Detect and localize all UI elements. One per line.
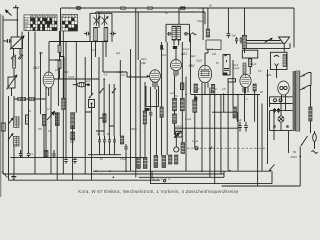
wire x8: [8, 96, 10, 180]
resistor R30: [26, 115, 29, 124]
padder resistor R5: [42, 114, 45, 125]
capacitor C5: [110, 32, 116, 36]
wire x250: [249, 58, 251, 75]
wire R4 rail: [14, 98, 46, 100]
wire x109: [108, 84, 110, 136]
wire x274: [273, 111, 275, 140]
wire x186: [185, 77, 187, 172]
trim pot box: [175, 131, 184, 138]
capacitor C19: [27, 152, 30, 158]
fuse FU1: [313, 131, 317, 148]
wire IFT2 to V3: [175, 49, 177, 60]
capacitor C12: [124, 144, 127, 152]
mains switch S2: [269, 165, 275, 171]
svg-text:0,5µF: 0,5µF: [196, 60, 203, 63]
resistor R16: [193, 100, 197, 113]
capacitor C10: [108, 136, 111, 155]
wire x161: [161, 42, 163, 156]
capacitor C6: [167, 32, 172, 36]
wire x140: [138, 12, 140, 157]
node on bus 2: [199, 7, 201, 9]
svg-text:100: 100: [39, 52, 44, 55]
HT supply bus: [61, 7, 294, 9]
wire screen branch: [60, 57, 65, 99]
coil box T-A: [90, 13, 112, 42]
node HT a: [214, 94, 216, 96]
svg-text:1µF: 1µF: [170, 92, 175, 95]
wire x228: [227, 82, 229, 171]
wire x257: [257, 95, 259, 187]
coil L5: [13, 57, 16, 68]
resistor R8: [71, 113, 75, 129]
wire tap feeder: [309, 73, 312, 86]
potentiometer P1: [7, 74, 18, 89]
wire x35: [34, 32, 36, 175]
resistor R1 on bus: [121, 7, 126, 9]
transformer T3 winding stack: [296, 71, 300, 131]
tube V5 envelope: [240, 74, 251, 93]
wire grid divider drop: [60, 8, 62, 57]
heater winding box: [270, 97, 293, 107]
resistor R17: [173, 114, 177, 123]
wire x179: [178, 8, 180, 24]
potentiometer P2: [174, 133, 180, 152]
switch contact S5: [100, 88, 104, 92]
svg-text:AK2: AK2: [32, 66, 40, 70]
capacitor C15: [244, 122, 247, 132]
node HT b: [223, 94, 225, 96]
svg-text:AZ1: AZ1: [265, 73, 272, 77]
cap cluster bus: [88, 154, 121, 156]
wire V4 grid feed: [205, 50, 208, 66]
detector takeoff line: [103, 42, 146, 77]
svg-text:50µF: 50µF: [141, 58, 147, 61]
terminal x mark b: [287, 126, 289, 128]
mains squiggle: [312, 151, 318, 154]
chassis bus 2: [3, 173, 224, 175]
electrolytic C16: [169, 155, 172, 164]
resistor R20: [181, 143, 185, 154]
svg-text:0,1µF: 0,1µF: [192, 140, 199, 143]
switch contact S6: [113, 88, 117, 92]
mains plug node: [299, 156, 301, 158]
wire link drop: [151, 171, 153, 179]
bottom bus 5: [139, 171, 224, 177]
knob node: [195, 147, 198, 150]
capacitor C13: [149, 110, 152, 118]
wire x281: [280, 100, 282, 131]
svg-text:0,1µF: 0,1µF: [183, 48, 190, 51]
capacitor C3: [226, 34, 236, 39]
wire screen feed: [59, 31, 61, 79]
svg-text:4Ω: 4Ω: [260, 91, 263, 94]
capacitor C21: [52, 150, 55, 158]
speaker cone SP1: [279, 37, 290, 52]
bottom nested line: [150, 171, 272, 183]
terminal box: [242, 50, 257, 58]
pilot lamp LP1: [278, 116, 284, 122]
link pivot circle: [163, 180, 165, 182]
mechanical link lower dashes: [153, 178, 172, 180]
tube V3 envelope: [171, 60, 182, 77]
antenna arrow A: [5, 9, 12, 15]
resistor R21: [137, 157, 141, 168]
wire drop x228: [227, 8, 229, 34]
AVC arrow: [146, 75, 149, 78]
wire x267: [267, 70, 269, 165]
wire x40: [41, 52, 45, 158]
switch contact S4: [90, 93, 94, 98]
capacitor C18: [19, 150, 22, 158]
tick stubs: [85, 112, 114, 131]
capacitor C9: [103, 136, 106, 155]
link arrow: [210, 147, 213, 151]
wire x238: [237, 95, 239, 171]
lamp box: [270, 111, 293, 131]
wire x202: [201, 88, 203, 172]
capacitor C11: [113, 136, 116, 155]
coupling box: [223, 54, 230, 75]
wire speaker leads: [247, 41, 284, 44]
HT node line: [191, 94, 260, 96]
wire osc coil top: [95, 12, 97, 13]
wire x195: [194, 95, 196, 149]
box K1: [89, 100, 95, 108]
svg-text:Kora, W 67 Elektra, Wechselstr: Kora, W 67 Elektra, Wechselstrom, 1 Vork…: [78, 189, 239, 194]
resistor R23: [154, 156, 158, 168]
svg-text:0,1µF: 0,1µF: [233, 67, 240, 70]
speaker cabinet: [245, 8, 295, 53]
trimmer arrow TR1b: [94, 15, 100, 27]
transformer T3 core: [293, 71, 295, 131]
svg-text:2µF: 2µF: [162, 54, 167, 57]
wire C2 legs: [14, 49, 21, 56]
wire x85: [84, 57, 86, 174]
wire x95: [95, 41, 97, 57]
capacitor block C20: [44, 151, 48, 158]
coil L4: [177, 26, 181, 41]
flexible lead squiggle: [192, 33, 197, 35]
svg-text:100: 100: [212, 53, 217, 56]
svg-text:300: 300: [70, 141, 75, 144]
resistor R13: [160, 107, 163, 117]
trimmer arrow TR4: [47, 111, 55, 120]
wire antenna down-lead: [16, 8, 18, 37]
svg-text:0,1µF: 0,1µF: [117, 71, 124, 74]
choke box: [271, 52, 288, 69]
resistor R24: [162, 156, 166, 168]
resistor R26: [206, 29, 209, 37]
resistor R3a: [58, 45, 61, 53]
svg-text:0,1µF: 0,1µF: [185, 118, 192, 121]
tone line: [212, 112, 238, 122]
heater bus 1: [10, 157, 147, 159]
wire antenna link: [3, 19, 17, 21]
wire mains riser: [310, 86, 312, 134]
switch contact S1b: [18, 55, 23, 60]
wire IFT2 coil leads: [174, 39, 179, 45]
wire x22: [21, 32, 23, 158]
wire x46: [45, 94, 47, 158]
svg-text:0,5µF: 0,5µF: [120, 158, 127, 161]
svg-text:0,1µF: 0,1µF: [207, 48, 214, 51]
wire x209: [209, 88, 211, 178]
wire drop x203: [202, 8, 204, 40]
svg-text:50: 50: [293, 150, 297, 154]
wire x63: [62, 31, 64, 174]
wire x58: [57, 69, 59, 106]
chassis bus 3: [9, 179, 160, 181]
svg-text:0,1µF: 0,1µF: [175, 129, 182, 132]
oscillator coil L6: [14, 117, 20, 127]
resistor R14: [173, 98, 177, 111]
tube V1 envelope: [43, 72, 54, 96]
hum coil arrow: [265, 39, 272, 43]
wire x167: [166, 42, 168, 155]
solder blob: [194, 97, 197, 100]
svg-text:50µF: 50µF: [63, 71, 69, 74]
wire x99: [98, 12, 100, 136]
wire V1 anode: [49, 41, 106, 72]
wire x126: [125, 152, 127, 171]
capacitor C7: [184, 32, 190, 36]
trimmer arrow TR5: [8, 119, 13, 125]
wire field coil bottom: [242, 43, 290, 48]
tap arrow TP1: [300, 73, 309, 78]
terminal block on earth lead: [1, 123, 5, 131]
wire x120: [119, 60, 121, 136]
wire left column: [12, 68, 15, 117]
wire x130: [130, 49, 132, 171]
wire x106: [105, 41, 107, 57]
terminal x mark a: [274, 126, 276, 128]
resistor R2 on bus: [148, 7, 153, 9]
wire x215: [214, 95, 216, 184]
resistor R28: [243, 63, 246, 74]
svg-text:0,1µF: 0,1µF: [55, 59, 62, 62]
tube V4 envelope: [198, 65, 211, 89]
volume feed line: [174, 127, 238, 129]
wire x285: [285, 100, 287, 111]
wire x182: [181, 42, 183, 143]
wire x150: [150, 87, 152, 184]
wire x145: [144, 82, 146, 157]
V2 cathode box: [146, 86, 159, 107]
cathode resistor blob: [145, 108, 150, 111]
wire x174: [174, 75, 176, 135]
svg-text:220V: 220V: [291, 155, 298, 159]
mechanical dashed link: [187, 147, 268, 149]
capacitor C1: [3, 39, 11, 43]
wire x91 IFT1 left: [91, 42, 93, 180]
wire x288: [288, 131, 290, 153]
wire x51: [50, 94, 52, 174]
detector D1: [73, 83, 90, 87]
mains bottom line: [222, 147, 301, 187]
trimmer arrow TR2b: [102, 15, 108, 27]
trimmer arrow TR3: [8, 134, 13, 140]
antenna terminal symbol: [13, 5, 19, 7]
variable capacitor C2: [10, 35, 25, 50]
svg-text:50µF: 50µF: [236, 119, 242, 122]
svg-text:TA: TA: [25, 28, 28, 31]
resistor R32: [211, 84, 214, 93]
wire x28: [28, 32, 30, 152]
svg-text:0,1µF: 0,1µF: [250, 63, 257, 66]
wire x114: [113, 84, 115, 136]
resistor R27: [249, 59, 252, 67]
capacitor C28: [240, 37, 243, 44]
wire fuse lead: [314, 142, 316, 150]
wire fork to rectifier: [276, 70, 278, 78]
wire x57: [56, 113, 58, 181]
terminal blob: [173, 46, 177, 49]
wire x72: [72, 126, 74, 181]
capacitor C4: [84, 32, 90, 36]
wire x190: [190, 34, 192, 95]
oscillator coil L7: [14, 136, 20, 146]
dial lamp a: [274, 99, 277, 102]
scan edge artifact: [0, 14, 2, 197]
resistor R7: [62, 98, 65, 109]
wire x220: [220, 95, 222, 175]
resistor R10: [103, 114, 106, 123]
wire x262: [261, 104, 263, 172]
field coil magnet: [242, 35, 246, 48]
coil L3: [172, 26, 176, 41]
resistor R31: [194, 84, 198, 93]
box K2: [206, 40, 221, 50]
band switch table grid 1: [24, 15, 57, 31]
fuse F1 on bus: [77, 7, 80, 10]
wire x244: [244, 87, 246, 121]
choke coil L8: [283, 55, 286, 67]
AVC bus: [96, 11, 205, 13]
wire x66: [65, 42, 67, 158]
node drop: [202, 7, 204, 9]
dial lamp b: [279, 99, 282, 102]
svg-text:0,1µF: 0,1µF: [68, 76, 75, 79]
resistor R12: [143, 111, 146, 124]
node J1: [16, 19, 18, 21]
svg-text:4µF: 4µF: [86, 80, 91, 83]
resistor R18: [233, 107, 236, 118]
IFT2 box: [166, 24, 190, 42]
svg-text:4µF: 4µF: [160, 48, 165, 51]
capacitor C23: [73, 158, 76, 164]
wire x76: [75, 42, 77, 113]
junction dots: [98, 11, 100, 13]
wire x205: [204, 12, 206, 95]
fork contact: [275, 64, 279, 71]
svg-text:AB1: AB1: [180, 52, 187, 56]
resistor R4: [18, 98, 26, 101]
svg-text:1M: 1M: [174, 95, 177, 98]
coil L1: [93, 27, 97, 42]
thermo contact: [274, 55, 279, 57]
wire x233: [232, 60, 234, 107]
resistor R19: [253, 84, 256, 91]
wire x156: [155, 89, 157, 155]
trimmer arrow TR2: [102, 17, 108, 25]
wire x104: [103, 79, 105, 136]
trimmer arrow TR1: [94, 17, 100, 25]
ground symbol G1: [11, 174, 16, 180]
resistor R3b: [58, 60, 61, 69]
tube V6 envelope: [278, 81, 289, 100]
wire drop x208: [207, 8, 209, 29]
svg-text:4µF: 4µF: [232, 34, 237, 38]
band switch table grid 2: [62, 14, 78, 31]
wire x254: [254, 91, 256, 122]
resistor R9: [71, 132, 75, 140]
capacitor C30: [277, 108, 280, 113]
switch contact S1a: [11, 55, 16, 60]
svg-text:AB2: AB2: [188, 64, 195, 68]
resistor R29: [181, 83, 184, 90]
grid bias line: [54, 78, 99, 80]
electrolytic C17: [175, 155, 178, 164]
capacitor C29: [273, 108, 276, 113]
node on bus: [231, 7, 233, 9]
tap arrow TP2: [300, 86, 309, 91]
mains switch S3: [302, 136, 308, 145]
svg-text:4µF: 4µF: [116, 52, 121, 55]
resistor R25: [309, 107, 312, 121]
grid stopper box: [228, 79, 236, 82]
wire x14 lower: [13, 146, 15, 175]
wire x223: [223, 93, 225, 112]
capacitor C27: [235, 37, 238, 44]
wire left earth lead: [2, 16, 4, 175]
svg-text:25000: 25000: [130, 128, 137, 131]
coil L2: [104, 27, 108, 42]
wire V1 to coil: [49, 59, 61, 61]
resistor R15: [180, 98, 184, 111]
svg-text:0,5µF: 0,5µF: [197, 20, 204, 23]
resistor R2b on bus: [181, 7, 186, 9]
capacitor C14: [238, 122, 241, 132]
resistor R22: [143, 157, 147, 168]
capacitor cluster: C8: [98, 136, 101, 155]
tube V2 envelope: [150, 70, 161, 89]
capacitor C22: [64, 158, 67, 164]
resistor R4b: [29, 98, 35, 101]
bottom bus 4: [93, 170, 271, 172]
wire x134: [135, 8, 137, 177]
scan mark bottom-left: [2, 172, 8, 178]
padder resistor R6: [55, 113, 59, 126]
resistor R11: [120, 136, 123, 144]
